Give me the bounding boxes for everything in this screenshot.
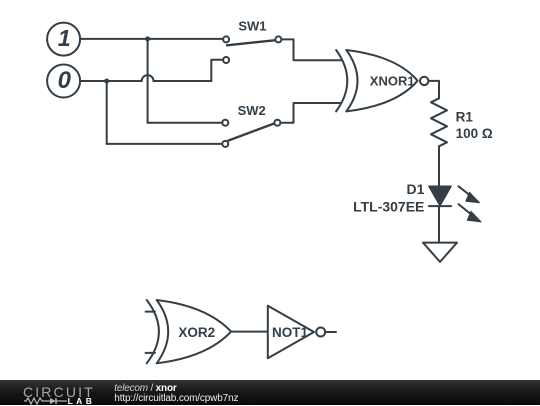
wire net0 vertical drop: [106, 81, 108, 144]
xor gate XOR2: [146, 300, 232, 363]
svg-text:SW1: SW1: [238, 19, 266, 34]
wire D1 to ground: [438, 206, 440, 243]
svg-text:LTL-307EE: LTL-307EE: [353, 198, 424, 214]
xnor gate XNOR1: [336, 50, 428, 111]
wire net0 to SW2 lower throw: [107, 143, 223, 145]
wire NOT1 output: [326, 331, 337, 333]
wire SW2 common to XNOR1 input B: [281, 103, 341, 123]
svg-text:SW2: SW2: [238, 103, 266, 118]
switch SW2: [222, 120, 280, 147]
wire net0 riser to SW1 lower throw: [211, 60, 223, 81]
svg-text:XNOR1: XNOR1: [370, 74, 415, 89]
footer bar: [0, 380, 540, 405]
CircuitLab logo text CIRCUIT: [23, 384, 95, 400]
wire SW1 common to XNOR1 input A: [281, 39, 341, 60]
CircuitLab logo resistor-diode squiggle: [23, 396, 69, 405]
wire R1 to D1: [438, 146, 440, 186]
switch SW1: [223, 36, 281, 63]
svg-text:XOR2: XOR2: [178, 325, 215, 340]
LED light arrows: [459, 186, 482, 222]
svg-text:0: 0: [58, 67, 72, 94]
wire hop net0 over net1: [142, 75, 154, 81]
inverter NOT1: [268, 306, 325, 359]
source node 0: [47, 65, 80, 98]
svg-text:R1: R1: [456, 110, 474, 125]
svg-text:1: 1: [58, 25, 71, 51]
footer url: [114, 393, 238, 404]
svg-text:D1: D1: [406, 181, 424, 197]
source node 1: [47, 23, 80, 56]
wire net1 vertical drop: [147, 39, 149, 123]
wire XNOR1 output to R1: [429, 81, 439, 98]
junction on net0: [104, 79, 109, 84]
wire net0 horizontal with hop: [81, 80, 211, 82]
wire net1 to SW2 upper throw: [148, 122, 223, 124]
wire net1 horizontal: [81, 38, 223, 40]
resistor R1: [431, 98, 447, 146]
wire XOR2 to NOT1: [231, 331, 268, 333]
svg-text:100 Ω: 100 Ω: [456, 126, 493, 141]
svg-text:NOT1: NOT1: [272, 325, 308, 340]
CircuitLab logo text LAB: [68, 396, 96, 406]
LED D1: [429, 186, 451, 206]
junction on net1: [145, 36, 150, 41]
footer title telecom / xnor: [114, 383, 176, 394]
ground: [423, 243, 457, 262]
